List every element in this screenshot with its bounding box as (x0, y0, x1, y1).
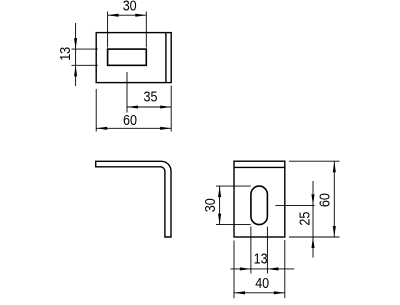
svg-text:40: 40 (255, 276, 269, 292)
svg-text:35: 35 (144, 89, 158, 105)
svg-text:30: 30 (203, 198, 219, 212)
svg-text:60: 60 (123, 113, 137, 129)
svg-text:13: 13 (254, 252, 268, 268)
svg-text:60: 60 (318, 193, 334, 207)
svg-text:30: 30 (123, 0, 137, 15)
svg-text:25: 25 (297, 212, 313, 226)
svg-text:13: 13 (58, 47, 74, 61)
